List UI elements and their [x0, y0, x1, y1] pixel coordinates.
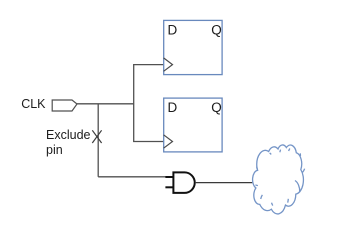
- flip-flop U1 clock triangle: [164, 58, 173, 71]
- wire AND output to cloud: [195, 182, 252, 184]
- flip-flop U2 clock triangle: [164, 135, 173, 148]
- svg-text:Exclude: Exclude: [46, 128, 91, 142]
- AND gate body: [173, 172, 194, 193]
- svg-text:D: D: [168, 100, 178, 115]
- wire to FF2 clock: [133, 141, 164, 143]
- wire to FF1 clock: [133, 64, 164, 66]
- flip-flop U2 box: [164, 98, 222, 152]
- svg-text:Q: Q: [211, 100, 222, 115]
- svg-text:pin: pin: [46, 143, 63, 157]
- AND gate input stub lower: [165, 186, 173, 188]
- flip-flop U1 box: [164, 20, 222, 74]
- AND gate input stub upper: [165, 176, 173, 178]
- svg-text:Q: Q: [211, 23, 222, 38]
- wire exclude-pin vertical: [97, 104, 99, 177]
- svg-text:D: D: [168, 23, 178, 38]
- input port symbol CLK: [52, 100, 77, 111]
- wire exclude-pin horizontal to AND gate: [98, 176, 167, 178]
- svg-text:CLK: CLK: [21, 97, 46, 111]
- exclude pin X mark: [92, 130, 101, 143]
- wire CLK horizontal: [77, 103, 134, 105]
- wire clock bus vertical: [133, 65, 135, 142]
- cloud inner arcs: [255, 149, 304, 206]
- cloud outline: [253, 145, 304, 214]
